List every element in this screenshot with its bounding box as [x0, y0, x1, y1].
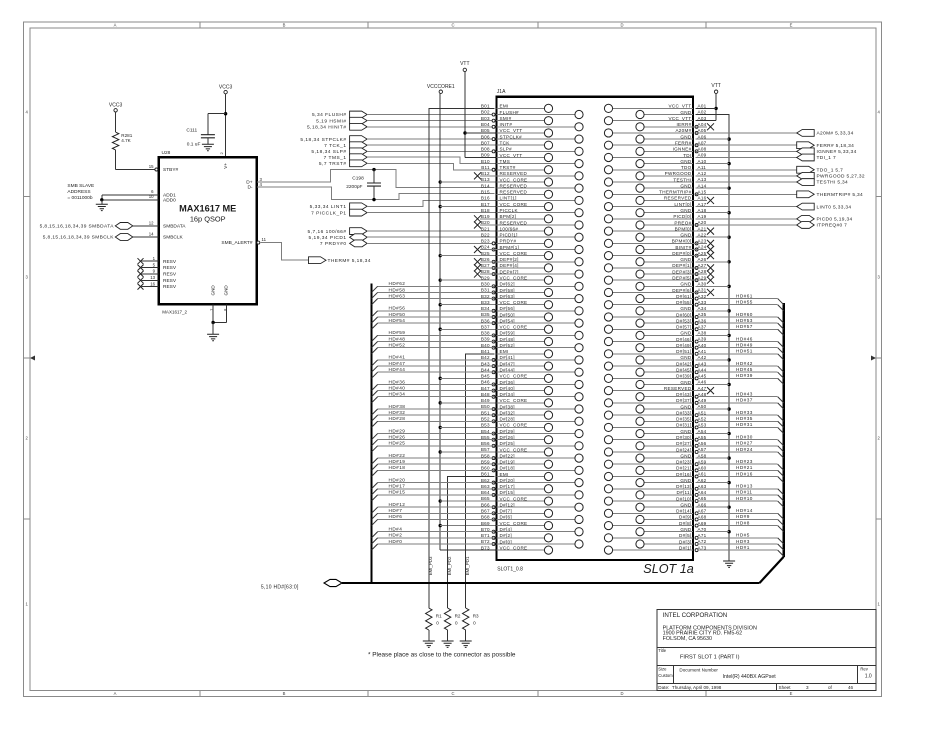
svg-text:5,8,15,16,18,34,39 SMBCLK: 5,8,15,16,18,34,39 SMBCLK [43, 235, 114, 241]
svg-text:A17: A17 [698, 202, 707, 207]
pin A29 DEP#[5] [604, 275, 714, 284]
pin B35 D#[50] [372, 312, 553, 323]
svg-text:A35: A35 [698, 312, 707, 317]
svg-text:B01: B01 [481, 104, 490, 109]
svg-text:HD#29: HD#29 [389, 428, 406, 433]
port LINT0 [696, 203, 852, 210]
svg-text:THERM# 5,18,34: THERM# 5,18,34 [328, 258, 371, 264]
svg-text:B03: B03 [481, 116, 490, 121]
svg-text:B58: B58 [481, 453, 490, 458]
svg-text:B37: B37 [481, 324, 490, 329]
svg-text:B43: B43 [481, 361, 490, 366]
capacitor C111 0.1uF [186, 112, 227, 148]
svg-text:SMBCLK: SMBCLK [163, 235, 184, 241]
svg-text:B16: B16 [481, 196, 490, 201]
ground (R2) [442, 641, 454, 647]
svg-text:B11: B11 [481, 165, 490, 170]
svg-text:B19: B19 [481, 214, 490, 219]
pin 11 SMB_ALERT# / port THERM# [257, 237, 371, 264]
svg-text:A54: A54 [698, 429, 707, 434]
svg-text:HD#16: HD#16 [736, 471, 753, 476]
pin B24 BPM#[1] [474, 245, 583, 254]
svg-text:SMB SLAVE: SMB SLAVE [67, 183, 94, 189]
svg-text:B30: B30 [481, 282, 490, 287]
svg-text:A60: A60 [698, 466, 707, 471]
svg-text:Intel(R) 440BX AGPset: Intel(R) 440BX AGPset [723, 674, 777, 680]
pin A57 D#[24] [604, 447, 783, 458]
pin A04 IERR# [636, 122, 714, 131]
port ITPREQ#0 [696, 222, 848, 229]
svg-text:B45: B45 [481, 374, 490, 379]
pin A53 D#[31] [604, 423, 783, 434]
pin A43 D#[42] [604, 361, 783, 372]
svg-text:B02: B02 [481, 110, 490, 115]
svg-text:R1: R1 [436, 613, 442, 618]
svg-text:Sheet: Sheet [779, 685, 792, 690]
svg-text:B72: B72 [481, 539, 490, 544]
svg-text:A44: A44 [698, 367, 707, 372]
pin B69 VCC_CORE [481, 521, 553, 530]
svg-text:A29: A29 [698, 275, 707, 280]
svg-text:HD#49: HD#49 [736, 342, 753, 347]
pin 4 D- wire to B15 [257, 182, 495, 200]
svg-text:A53: A53 [698, 423, 707, 428]
pin B62 D#[20] [372, 478, 584, 489]
svg-text:B57: B57 [481, 447, 490, 452]
svg-text:A52: A52 [698, 416, 707, 421]
svg-text:HD#48: HD#48 [389, 336, 406, 341]
svg-text:HD#42: HD#42 [736, 361, 753, 366]
resistor R1 0 [426, 608, 443, 641]
pin B66 D#[12] [372, 502, 584, 513]
pin B34 D#[56] [372, 306, 584, 317]
pin B49 VCC_CORE [481, 398, 553, 407]
port TDI_1 [696, 154, 837, 161]
port TCK_1 [324, 142, 496, 149]
svg-text:HD#14: HD#14 [736, 508, 753, 513]
svg-text:10: 10 [149, 194, 154, 199]
pin B09 VCC_VTT [481, 153, 553, 162]
svg-text:5,10 HD#[63:0]: 5,10 HD#[63:0] [261, 585, 299, 591]
power symbol VCCCORE1 [427, 84, 497, 550]
pin B64 D#[15] [372, 490, 584, 501]
svg-text:B66: B66 [481, 502, 490, 507]
svg-text:B51: B51 [481, 410, 490, 415]
svg-text:B24: B24 [481, 245, 490, 250]
pin B28 DEP#[7] [474, 269, 583, 278]
note placement [368, 652, 516, 659]
svg-text:FIRST SLOT 1 (PART I): FIRST SLOT 1 (PART I) [680, 655, 740, 661]
pin A31 DEP#[6] [604, 288, 714, 297]
pin B29 VCC_CORE [481, 275, 553, 284]
svg-text:Title: Title [658, 648, 666, 653]
pin B48 D#[34] [372, 392, 584, 403]
svg-text:A43: A43 [698, 361, 707, 366]
svg-text:C: C [451, 23, 454, 28]
svg-text:PICD0 5,19,34: PICD0 5,19,34 [817, 217, 853, 223]
svg-text:RESV: RESV [163, 265, 177, 271]
svg-text:B52: B52 [481, 416, 490, 421]
svg-text:A08: A08 [698, 147, 707, 152]
pin B04 INIT# [481, 122, 583, 131]
pin 3 D+ wire to B14 [257, 170, 495, 188]
svg-text:0: 0 [473, 621, 476, 626]
pin A42 GND [636, 355, 707, 364]
svg-text:HD#13: HD#13 [736, 484, 753, 489]
ground (R1) [423, 641, 435, 647]
pin B57 VCC_CORE [481, 447, 553, 456]
svg-text:STBY#: STBY# [163, 167, 179, 173]
pin B26 DEP#[2] [474, 257, 583, 266]
svg-text:HD#20: HD#20 [389, 477, 406, 482]
svg-text:E: E [790, 23, 793, 28]
svg-text:5,18,34 STPCLK#: 5,18,34 STPCLK# [300, 137, 346, 143]
pin A24 BINIT# [636, 245, 714, 254]
svg-text:B59: B59 [481, 459, 490, 464]
pin A63 D#[13] [604, 484, 783, 495]
svg-text:HD#63: HD#63 [389, 293, 406, 298]
svg-text:HD#19: HD#19 [389, 459, 406, 464]
svg-text:HD#33: HD#33 [736, 410, 753, 415]
pin B40 D#[52] [372, 343, 584, 354]
resistor R281 4.7K [112, 132, 156, 169]
pin 15 STBY# [149, 164, 158, 171]
pin A59 D#[23] [604, 459, 783, 470]
capacitor C198 2200pF [346, 168, 381, 201]
svg-text:IGNNE# 5,33,34: IGNNE# 5,33,34 [817, 149, 857, 155]
svg-text:B62: B62 [481, 478, 490, 483]
svg-text:B26: B26 [481, 257, 490, 262]
pin B01 EMI [481, 104, 553, 113]
port IGNNE# [696, 148, 857, 155]
svg-text:RESV: RESV [163, 278, 177, 284]
svg-text:A20: A20 [698, 220, 707, 225]
pin B12 RESERVED [474, 171, 583, 180]
svg-text:INTEL CORPORATION: INTEL CORPORATION [663, 612, 728, 619]
power symbol VTT (right) [696, 83, 721, 121]
svg-text:B21: B21 [481, 226, 490, 231]
pin A45 D#[39] [604, 374, 783, 385]
svg-text:J1A: J1A [497, 89, 506, 95]
pin A32 D#[61] [636, 294, 784, 305]
svg-text:5,18,34 HINIT#: 5,18,34 HINIT# [307, 125, 347, 131]
svg-text:HD#39: HD#39 [736, 373, 753, 378]
svg-text:5,7,16 100/66#: 5,7,16 100/66# [307, 229, 346, 235]
pin A68 D#[9] [636, 515, 784, 526]
wire EMI_PD3 (B01) [428, 108, 495, 608]
pin A44 D#[45] [636, 367, 784, 378]
pin B05 VCC_VTT [481, 128, 553, 137]
pin B51 D#[32] [372, 410, 553, 421]
pin B67 D#[7] [372, 509, 553, 520]
pin A69 D#[8] [604, 521, 783, 532]
svg-text:HD#28: HD#28 [389, 416, 406, 421]
svg-text:14: 14 [149, 231, 154, 236]
port TESTHI [696, 179, 849, 186]
svg-text:B04: B04 [481, 122, 490, 127]
svg-text:13: 13 [150, 275, 155, 280]
pin B65 VCC_CORE [481, 496, 553, 505]
pin B15 RESERVED [481, 189, 553, 198]
pins 7,8 GND / ground [207, 304, 227, 340]
port PICD1 [309, 234, 497, 241]
pin A05 A20M# [604, 128, 706, 137]
pin A41 D#[51] [604, 349, 783, 360]
svg-text:B: B [283, 691, 286, 696]
svg-text:A39: A39 [698, 337, 707, 342]
svg-text:HD#24: HD#24 [736, 447, 753, 452]
svg-text:A56: A56 [698, 441, 707, 446]
pin A38 GND [636, 331, 707, 340]
svg-text:HD#58: HD#58 [389, 287, 406, 292]
svg-text:B44: B44 [481, 367, 490, 372]
pin A72 D#[3] [636, 539, 784, 550]
svg-text:B13: B13 [481, 177, 490, 182]
svg-text:B27: B27 [481, 263, 490, 268]
svg-text:A41: A41 [698, 349, 707, 354]
pin B18 PICCLK [481, 208, 583, 217]
pin 10 ADD0 [102, 194, 159, 200]
svg-text:VTT: VTT [460, 61, 469, 67]
svg-text:B71: B71 [481, 533, 490, 538]
title block [657, 610, 876, 691]
svg-text:A69: A69 [698, 521, 707, 526]
svg-text:11: 11 [262, 237, 267, 242]
svg-text:RESV: RESV [163, 259, 177, 265]
svg-text:B54: B54 [481, 429, 490, 434]
port FERR# [696, 142, 855, 149]
svg-text:A06: A06 [698, 134, 707, 139]
svg-text:4.7K: 4.7K [121, 138, 131, 143]
svg-text:B41: B41 [481, 349, 490, 354]
bus HD#[63:0] (left and bottom) [261, 284, 760, 591]
svg-text:7 TMS_1: 7 TMS_1 [324, 155, 347, 161]
pin A37 D#[57] [604, 324, 783, 335]
svg-text:B07: B07 [481, 140, 490, 145]
svg-text:HD#34: HD#34 [389, 392, 406, 397]
svg-text:B38: B38 [481, 331, 490, 336]
pin B60 D#[18] [372, 466, 584, 477]
pin B38 D#[59] [372, 331, 584, 342]
no-connect RESV pins 1,5,9,13,16 [138, 256, 159, 290]
svg-text:HD#5: HD#5 [736, 533, 750, 538]
svg-text:RESV: RESV [163, 272, 177, 278]
svg-text:B17: B17 [481, 202, 490, 207]
svg-text:V+: V+ [223, 163, 228, 169]
svg-text:Thursday, April 09, 1998: Thursday, April 09, 1998 [672, 685, 722, 690]
pin A14 GND [636, 183, 707, 192]
svg-text:HD#32: HD#32 [389, 410, 406, 415]
svg-text:ADDRESS: ADDRESS [67, 189, 90, 195]
svg-text:A19: A19 [698, 214, 707, 219]
svg-text:HD#17: HD#17 [389, 484, 406, 489]
pin B42 D#[41] [372, 355, 584, 366]
svg-text:B14: B14 [481, 183, 490, 188]
svg-text:* Please place as close to the: * Please place as close to the connector… [368, 652, 516, 659]
pin A40 D#[49] [636, 343, 784, 354]
svg-text:A61: A61 [698, 472, 707, 477]
svg-text:EMI_PD1: EMI_PD1 [465, 556, 470, 575]
node HD# labels (left) [389, 281, 406, 544]
svg-text:HD#9: HD#9 [736, 514, 750, 519]
svg-text:HD#23: HD#23 [736, 459, 753, 464]
svg-text:HD#61: HD#61 [736, 293, 753, 298]
pin B07 TCK [481, 140, 553, 149]
pin A67 D#[14] [604, 509, 783, 520]
svg-text:HD#46: HD#46 [736, 336, 753, 341]
svg-text:HD#25: HD#25 [389, 441, 406, 446]
svg-text:HD#38: HD#38 [389, 404, 406, 409]
pin A16 RESERVED [636, 196, 714, 205]
svg-text:HD#36: HD#36 [389, 379, 406, 384]
svg-text:THERMTRIP# 5,34: THERMTRIP# 5,34 [817, 192, 864, 198]
svg-text:B50: B50 [481, 404, 490, 409]
pin B06 STPCLK# [481, 134, 583, 143]
svg-text:HD#56: HD#56 [389, 306, 406, 311]
svg-text:46: 46 [848, 685, 854, 690]
svg-text:TESTHI 5,34: TESTHI 5,34 [817, 180, 849, 186]
svg-text:LINT0 5,33,34: LINT0 5,33,34 [817, 204, 852, 210]
svg-text:Rev: Rev [860, 667, 868, 672]
pin A48 D#[43] [636, 392, 784, 403]
pin A01 VCC_VTT [604, 104, 706, 113]
pin A30 GND [636, 282, 707, 291]
pin A03 VCC_VTT [604, 116, 706, 125]
svg-text:B32: B32 [481, 294, 490, 299]
svg-text:B31: B31 [481, 288, 490, 293]
pin A65 D#[10] [604, 496, 783, 507]
svg-text:A63: A63 [698, 484, 707, 489]
svg-text:HD#12: HD#12 [389, 502, 406, 507]
svg-text:HD#0: HD#0 [389, 539, 403, 544]
svg-text:B65: B65 [481, 496, 490, 501]
svg-text:A70: A70 [698, 527, 707, 532]
ground (C111) [202, 144, 214, 150]
svg-text:A02: A02 [698, 110, 707, 115]
svg-text:VCCCORE1: VCCCORE1 [427, 84, 455, 90]
pin A54 GND [636, 429, 707, 438]
svg-text:B33: B33 [481, 300, 490, 305]
node SMB slave address / ground [67, 183, 107, 211]
svg-text:A42: A42 [698, 355, 707, 360]
svg-text:HD#51: HD#51 [736, 349, 753, 354]
svg-text:A62: A62 [698, 478, 707, 483]
svg-text:HD#26: HD#26 [389, 434, 406, 439]
pin B55 D#[26] [372, 435, 553, 446]
pin A18 GND [636, 208, 707, 217]
svg-text:B12: B12 [481, 171, 490, 176]
pin B53 VCC_CORE [481, 423, 553, 432]
svg-text:B09: B09 [481, 153, 490, 158]
pin B68 D#[6] [372, 515, 584, 526]
pin B59 D#[19] [372, 459, 553, 470]
svg-text:TDO_1 5,7: TDO_1 5,7 [817, 167, 844, 173]
pin A08 IGNNE# [636, 147, 707, 156]
svg-text:HD#7: HD#7 [389, 508, 403, 513]
svg-text:PWRGOOD 5,27,32: PWRGOOD 5,27,32 [817, 174, 865, 180]
pin A46 GND [636, 380, 707, 389]
svg-text:B29: B29 [481, 275, 490, 280]
svg-text:B48: B48 [481, 392, 490, 397]
port TRST# [319, 160, 495, 170]
port 100/66# [307, 228, 496, 235]
pin B02 FLUSH# [481, 110, 583, 119]
pin B13 VCC_CORE [481, 177, 553, 186]
svg-text:5,33,34 LINT1: 5,33,34 LINT1 [310, 204, 347, 210]
svg-text:A45: A45 [698, 374, 707, 379]
svg-text:SMB_ALERT#: SMB_ALERT# [221, 240, 252, 246]
svg-text:5,34 FLUSH#: 5,34 FLUSH# [312, 112, 347, 118]
svg-text:A51: A51 [698, 410, 707, 415]
svg-text:0: 0 [455, 621, 458, 626]
svg-text:A13: A13 [698, 177, 707, 182]
pin A55 D#[30] [604, 435, 783, 446]
svg-text:ADD1: ADD1 [163, 192, 176, 198]
pin A33 D#[55] [604, 300, 783, 311]
svg-text:15: 15 [149, 164, 154, 169]
pin A34 GND [636, 306, 707, 315]
svg-text:A71: A71 [698, 533, 707, 538]
svg-text:5,8,15,16,18,34,39 SMBDATA: 5,8,15,16,18,34,39 SMBDATA [40, 224, 115, 230]
svg-text:HD#21: HD#21 [736, 465, 753, 470]
pin A56 D#[27] [636, 441, 784, 452]
pin B14 RESERVED [481, 183, 583, 192]
pin B39 D#[48] [372, 337, 553, 348]
port TDO_1 [696, 166, 844, 173]
port A20M# [696, 130, 854, 137]
svg-text:A73: A73 [698, 545, 707, 550]
svg-text:D: D [620, 23, 623, 28]
svg-text:VCC3: VCC3 [219, 85, 233, 91]
svg-text:HD#18: HD#18 [389, 465, 406, 470]
pin 6 ADD1 [102, 189, 159, 195]
svg-text:D: D [620, 691, 623, 696]
svg-text:7 PRDY#0: 7 PRDY#0 [320, 241, 347, 247]
svg-text:EMI_PD3: EMI_PD3 [428, 556, 433, 575]
pin A02 GND [636, 110, 707, 119]
pin B71 D#[2] [372, 533, 553, 544]
svg-text:A31: A31 [698, 288, 707, 293]
pin A58 GND [636, 453, 707, 462]
svg-text:RESV: RESV [163, 284, 177, 290]
pin A52 D#[35] [636, 416, 784, 427]
svg-text:D-: D- [247, 185, 252, 191]
pin B32 D#[63] [372, 294, 584, 305]
port SLP# [311, 148, 494, 155]
svg-text:7 TCK_1: 7 TCK_1 [324, 143, 346, 149]
port THERMTRIP# [696, 191, 864, 198]
svg-text:B42: B42 [481, 355, 490, 360]
pin B56 D#[25] [372, 441, 584, 452]
pin A10 GND [636, 159, 707, 168]
svg-text:A23: A23 [698, 239, 707, 244]
svg-text:B61: B61 [481, 472, 490, 477]
svg-text:A59: A59 [698, 459, 707, 464]
svg-text:A37: A37 [698, 324, 707, 329]
svg-text:A36: A36 [698, 318, 707, 323]
svg-text:B: B [283, 23, 286, 28]
svg-text:MAX1617_2: MAX1617_2 [162, 309, 187, 314]
svg-text:SLOT1_0.8: SLOT1_0.8 [497, 567, 523, 573]
power symbol VCC3 (left) [109, 102, 123, 132]
svg-text:0: 0 [436, 621, 439, 626]
svg-text:= 0011000b: = 0011000b [67, 195, 92, 201]
pin A22 GND [636, 232, 707, 241]
svg-text:HD#10: HD#10 [736, 496, 753, 501]
svg-text:A50: A50 [698, 404, 707, 409]
svg-text:HD#8: HD#8 [736, 520, 750, 525]
svg-text:FERR# 5,18,34: FERR# 5,18,34 [817, 143, 855, 149]
